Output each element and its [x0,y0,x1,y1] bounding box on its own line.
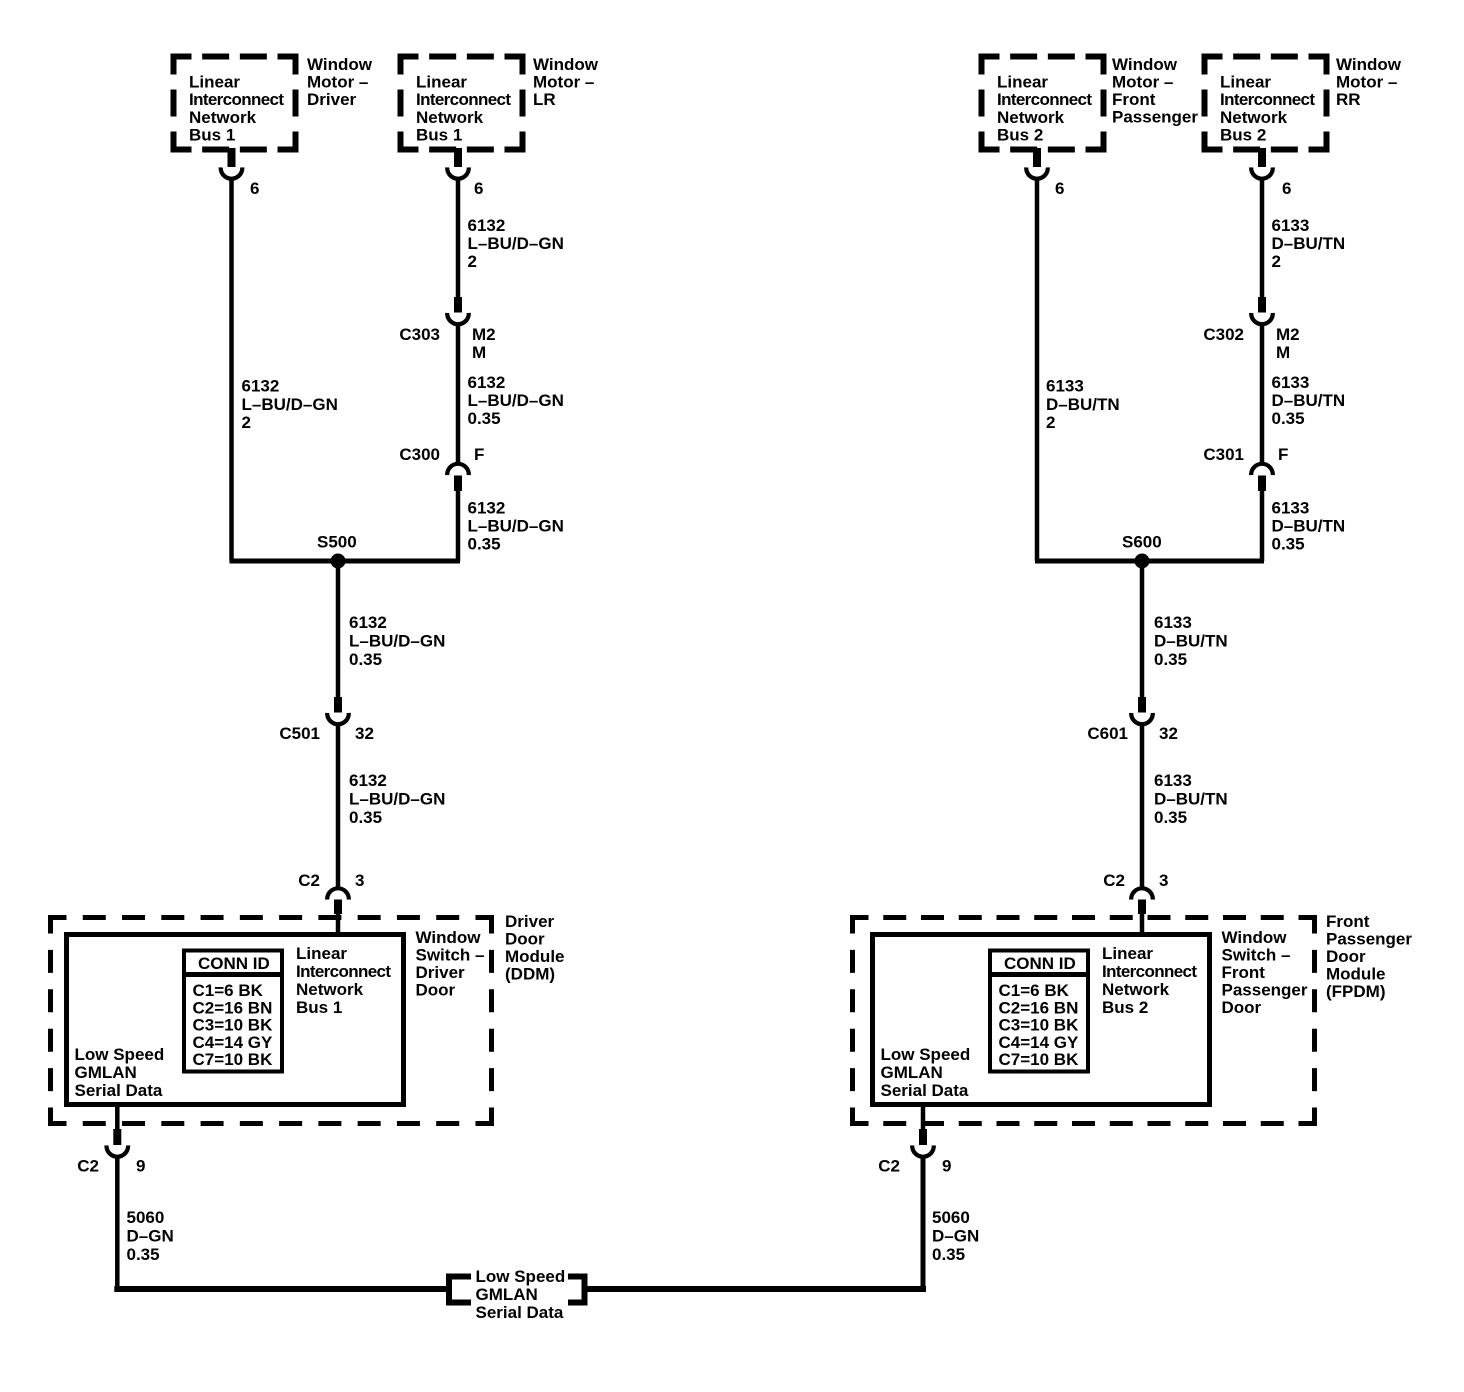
motor module: Window Motor - LR (Linear Interconnect Network Bus 1) [401,57,419,75]
svg-text:M2: M2 [1276,325,1300,344]
svg-text:L–BU/D–GN: L–BU/D–GN [468,391,564,410]
svg-text:6132: 6132 [468,216,506,235]
svg-text:Front: Front [1326,912,1370,931]
svg-text:5060: 5060 [127,1208,165,1227]
svg-text:C601: C601 [1087,724,1128,743]
svg-text:M: M [472,343,486,362]
svg-text:Linear: Linear [1102,944,1153,963]
svg-text:D–BU/TN: D–BU/TN [1154,789,1228,808]
svg-text:6132: 6132 [468,499,506,518]
svg-text:Interconnect: Interconnect [1220,90,1315,109]
svg-text:0.35: 0.35 [468,535,501,554]
svg-text:0.35: 0.35 [932,1245,965,1264]
svg-text:Motor –: Motor – [533,73,594,92]
svg-text:Motor –: Motor – [1112,73,1173,92]
connector C301 pin F [1251,464,1273,475]
svg-text:6132: 6132 [349,613,387,632]
svg-text:6132: 6132 [242,377,280,396]
svg-text:Window: Window [1336,55,1402,74]
svg-text:9: 9 [136,1157,145,1176]
wire 6133 from C302 to C301 [1260,324,1265,463]
svg-text:Linear: Linear [1220,73,1271,92]
svg-text:RR: RR [1336,90,1361,109]
wire 6132 from S500 to C501 [336,561,341,699]
svg-text:L–BU/D–GN: L–BU/D–GN [349,789,445,808]
svg-text:C501: C501 [279,724,320,743]
splice S500 [230,559,461,564]
svg-text:S500: S500 [317,533,357,552]
svg-text:Bus 2: Bus 2 [1102,998,1148,1017]
svg-text:6: 6 [474,179,483,198]
Front Passenger Door Module (FPDM) dashed box [853,918,869,934]
svg-text:(DDM): (DDM) [505,965,555,984]
GMLAN bus right bracket [568,1277,585,1303]
svg-text:Serial Data: Serial Data [476,1303,564,1322]
svg-text:Module: Module [1326,965,1386,984]
svg-text:0.35: 0.35 [1154,650,1187,669]
svg-text:Bus 2: Bus 2 [997,126,1043,145]
svg-text:6132: 6132 [349,771,387,790]
Window Switch - Driver Door inner box [67,935,404,1105]
splice S600 [1035,559,1264,564]
svg-text:C4=14 GY: C4=14 GY [999,1033,1080,1052]
wire 6132 from C300 to S500 [456,489,461,561]
svg-text:6: 6 [250,179,259,198]
svg-text:32: 32 [1159,724,1178,743]
svg-text:Network: Network [1220,108,1288,127]
svg-text:Interconnect: Interconnect [997,90,1092,109]
svg-text:Low Speed: Low Speed [881,1045,971,1064]
svg-text:2: 2 [468,252,477,271]
svg-text:C302: C302 [1203,325,1244,344]
svg-text:M2: M2 [472,325,496,344]
svg-text:GMLAN: GMLAN [75,1063,137,1082]
svg-text:6132: 6132 [468,373,506,392]
svg-text:F: F [1278,445,1288,464]
Window Switch - Front Passenger Door inner box [873,935,1210,1105]
svg-text:LR: LR [533,90,556,109]
wire 6132 from C303 to C300 [456,324,461,463]
svg-text:Switch –: Switch – [416,946,485,965]
svg-text:C2=16 BN: C2=16 BN [193,998,273,1017]
svg-text:Window: Window [533,55,599,74]
svg-text:CONN ID: CONN ID [198,954,270,973]
svg-text:Door: Door [1222,998,1262,1017]
svg-text:D–GN: D–GN [127,1226,174,1245]
connector C2 pin 9 at FPDM [921,1103,926,1130]
svg-text:Network: Network [189,108,257,127]
svg-text:L–BU/D–GN: L–BU/D–GN [242,395,338,414]
svg-text:Driver: Driver [416,963,466,982]
svg-text:Low Speed: Low Speed [476,1267,566,1286]
svg-text:Interconnect: Interconnect [189,90,284,109]
GMLAN bus left bracket [449,1277,471,1303]
svg-text:Motor –: Motor – [1336,73,1397,92]
svg-text:C303: C303 [399,325,440,344]
svg-text:C1=6 BK: C1=6 BK [999,981,1070,1000]
svg-text:C2: C2 [77,1157,99,1176]
svg-text:0.35: 0.35 [349,650,382,669]
svg-text:0.35: 0.35 [1272,409,1305,428]
Low Speed GMLAN Serial Data bus (right segment) [585,1286,927,1292]
svg-text:Module: Module [505,947,565,966]
svg-text:Switch –: Switch – [1222,946,1291,965]
svg-text:Network: Network [1102,980,1170,999]
svg-text:Motor –: Motor – [307,73,368,92]
svg-text:Network: Network [296,980,364,999]
svg-text:Window: Window [1112,55,1178,74]
svg-text:Window: Window [1222,928,1288,947]
svg-text:6133: 6133 [1154,771,1192,790]
connector C501 pin 32 [334,697,342,713]
svg-text:0.35: 0.35 [1154,808,1187,827]
svg-text:Passenger: Passenger [1326,930,1412,949]
svg-text:D–GN: D–GN [932,1226,979,1245]
svg-text:C3=10 BK: C3=10 BK [193,1016,274,1035]
svg-text:(FPDM): (FPDM) [1326,982,1385,1001]
wire 6132 from C501 to DDM C2 pin 3 [336,724,341,888]
svg-text:2: 2 [1272,252,1281,271]
svg-text:Driver: Driver [307,90,357,109]
svg-text:2: 2 [1046,413,1055,432]
svg-text:Window: Window [416,928,482,947]
svg-text:Front: Front [1222,963,1266,982]
svg-text:0.35: 0.35 [1272,535,1305,554]
wire 6133 from RR motor pin 6 to C302 [1260,178,1265,300]
svg-text:0.35: 0.35 [127,1245,160,1264]
wire 6132 from driver motor pin 6 to S500 [229,178,234,561]
svg-text:Bus 2: Bus 2 [1220,126,1266,145]
svg-text:D–BU/TN: D–BU/TN [1154,631,1228,650]
svg-text:5060: 5060 [932,1208,970,1227]
wire 6133 from front passenger motor pin 6 to S600 [1035,178,1040,561]
motor module: Window Motor - Driver (Linear Interconnect Network Bus 1) [174,57,192,75]
svg-text:D–BU/TN: D–BU/TN [1046,395,1120,414]
svg-text:9: 9 [942,1157,951,1176]
svg-text:Serial Data: Serial Data [75,1081,163,1100]
svg-text:Bus 1: Bus 1 [296,998,342,1017]
svg-text:Door: Door [505,930,545,949]
svg-text:Passenger: Passenger [1112,108,1198,127]
svg-text:D–BU/TN: D–BU/TN [1272,517,1346,536]
connector C302 pin M2 [1258,297,1266,313]
svg-text:3: 3 [355,871,364,890]
svg-text:Bus 1: Bus 1 [416,126,462,145]
svg-text:L–BU/D–GN: L–BU/D–GN [468,234,564,253]
connector C2 pin 9 at DDM [115,1103,120,1130]
svg-text:Linear: Linear [189,73,240,92]
wire 5060 from FPDM to GMLAN bus [921,1157,926,1293]
svg-text:6: 6 [1282,179,1291,198]
svg-text:Interconnect: Interconnect [296,962,391,981]
svg-text:C2: C2 [878,1157,900,1176]
svg-text:Network: Network [997,108,1065,127]
svg-text:C7=10 BK: C7=10 BK [999,1050,1080,1069]
svg-text:Interconnect: Interconnect [416,90,511,109]
wire 5060 from DDM to GMLAN bus [115,1157,120,1293]
svg-text:C2: C2 [1103,871,1125,890]
svg-text:32: 32 [355,724,374,743]
CONN ID table (DDM) [184,951,282,1072]
svg-text:6133: 6133 [1154,613,1192,632]
svg-text:D–BU/TN: D–BU/TN [1272,234,1346,253]
svg-text:Door: Door [416,981,456,1000]
svg-text:Door: Door [1326,947,1366,966]
svg-text:L–BU/D–GN: L–BU/D–GN [349,631,445,650]
svg-text:C300: C300 [399,445,440,464]
svg-text:Linear: Linear [416,73,467,92]
svg-text:C3=10 BK: C3=10 BK [999,1016,1080,1035]
motor module: Window Motor - RR (Linear Interconnect Network Bus 2) [1205,57,1223,75]
svg-text:CONN ID: CONN ID [1004,954,1076,973]
wire 6133 from S600 to C601 [1140,561,1145,699]
Low Speed GMLAN Serial Data bus (left segment) [114,1286,446,1292]
svg-text:C7=10 BK: C7=10 BK [193,1050,274,1069]
svg-text:Interconnect: Interconnect [1102,962,1197,981]
svg-text:C301: C301 [1203,445,1244,464]
svg-text:Serial Data: Serial Data [881,1081,969,1100]
svg-text:Low Speed: Low Speed [75,1045,165,1064]
svg-text:6133: 6133 [1272,499,1310,518]
svg-text:Window: Window [307,55,373,74]
wire 6132 from LR motor pin 6 to C303 [456,178,461,300]
svg-text:F: F [474,445,484,464]
svg-text:S600: S600 [1122,533,1162,552]
svg-text:Bus 1: Bus 1 [189,126,235,145]
svg-text:Linear: Linear [997,73,1048,92]
svg-text:6133: 6133 [1046,377,1084,396]
svg-text:Front: Front [1112,90,1156,109]
svg-text:C2=16 BN: C2=16 BN [999,998,1079,1017]
svg-text:Network: Network [416,108,484,127]
svg-text:D–BU/TN: D–BU/TN [1272,391,1346,410]
connector C300 pin F [447,464,469,475]
svg-text:0.35: 0.35 [349,808,382,827]
svg-text:Linear: Linear [296,944,347,963]
wire 6133 from C601 to FPDM C2 pin 3 [1140,724,1145,888]
wire 6133 from C301 to S600 [1260,489,1265,561]
svg-text:GMLAN: GMLAN [476,1285,538,1304]
connector C601 pin 32 [1138,697,1146,713]
svg-text:6133: 6133 [1272,216,1310,235]
CONN ID table (FPDM) [990,951,1088,1072]
svg-text:Passenger: Passenger [1222,981,1308,1000]
svg-text:3: 3 [1159,871,1168,890]
connector C303 pin M2 [454,297,462,313]
svg-text:GMLAN: GMLAN [881,1063,943,1082]
svg-text:C4=14 GY: C4=14 GY [193,1033,274,1052]
Driver Door Module (DDM) dashed box [51,918,67,934]
svg-text:6: 6 [1055,179,1064,198]
svg-text:Driver: Driver [505,912,555,931]
svg-text:2: 2 [242,413,251,432]
svg-text:6133: 6133 [1272,373,1310,392]
svg-text:M: M [1276,343,1290,362]
svg-text:C2: C2 [298,871,320,890]
svg-text:C1=6 BK: C1=6 BK [193,981,264,1000]
svg-text:L–BU/D–GN: L–BU/D–GN [468,517,564,536]
svg-text:0.35: 0.35 [468,409,501,428]
motor module: Window Motor - Front Passenger (Linear Interconnect Network Bus 2) [982,57,1000,75]
